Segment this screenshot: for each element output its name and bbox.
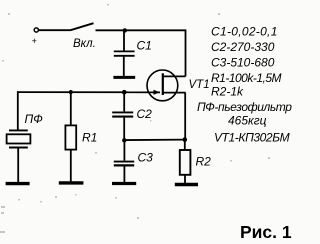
resistor R1 [65,92,76,182]
transistor VT1 [147,70,186,101]
ground under R1 [59,181,84,184]
svg-text:C3-510-680: C3-510-680 [211,56,275,70]
svg-text:465кгц: 465кгц [228,114,267,128]
wire between divider node and R2 node [124,139,185,142]
svg-text:C1-0,02-0,1: C1-0,02-0,1 [211,25,278,39]
wire drain vertical [185,30,187,76]
scan noise specks [0,4,270,233]
capacitor C1 [113,30,135,77]
svg-text:ПФ: ПФ [25,112,44,126]
capacitor C3 [114,140,134,182]
svg-text:C1: C1 [137,39,152,53]
svg-text:Рис. 1: Рис. 1 [240,222,292,242]
wire gate bus [17,91,160,93]
node R2 top [183,137,188,142]
svg-text:+: + [32,36,37,46]
svg-text:R2: R2 [196,155,212,169]
wire left drop to piezo [17,91,19,130]
svg-text:R2-1k: R2-1k [211,85,244,99]
node R1 tap [69,90,73,94]
wire [39,29,71,31]
svg-text:Вкл.: Вкл. [73,38,96,50]
ground under C3 [112,182,136,185]
resistor R2 [180,140,191,184]
svg-text:R1: R1 [82,131,97,145]
svg-text:R1-100k-1,5M: R1-100k-1,5M [211,71,282,85]
svg-text:C2-270-330: C2-270-330 [211,40,275,54]
node top junction [123,28,127,32]
capacitor C2 [112,92,133,140]
wire source vertical [184,93,186,140]
wire top rail [96,29,187,31]
ground under ПФ [6,182,30,185]
svg-text:C3: C3 [138,151,154,165]
value list text [197,25,292,145]
svg-text:VT1-КП302БМ: VT1-КП302БМ [214,131,290,145]
svg-text:ПФ-пьезофильтр: ПФ-пьезофильтр [197,100,292,114]
piezo filter ПФ [7,130,31,182]
battery + terminal [34,28,38,32]
wire drain horizontal [162,75,186,77]
gate arrow of VT1 [154,90,161,95]
switch SA arm [71,23,94,30]
svg-text:VT1: VT1 [189,79,210,91]
svg-text:C2: C2 [137,107,153,121]
node C2 tap [122,90,127,95]
node source / divider junction [122,138,126,142]
ground under R2 [175,183,198,186]
